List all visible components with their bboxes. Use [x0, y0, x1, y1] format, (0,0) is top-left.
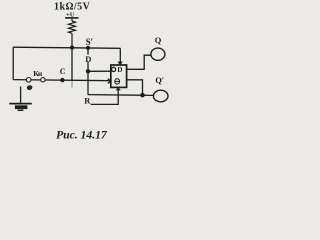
- svg-text:Q: Q: [155, 35, 162, 45]
- svg-text:C: C: [60, 67, 66, 76]
- pin bubble D input: [112, 67, 116, 71]
- switch contact right: [41, 78, 45, 82]
- wire Q' output: [127, 80, 143, 95]
- svg-text:R: R: [84, 96, 91, 106]
- svg-text:Рис. 14.17: Рис. 14.17: [56, 128, 108, 142]
- pin marker bottom triangle: [116, 87, 121, 90]
- node resistor/top rail junction: [70, 46, 74, 50]
- wire faint stub below switch row: [71, 80, 73, 88]
- label output glyph inside box: [115, 79, 120, 84]
- terminal Q' lamp: [153, 90, 168, 102]
- wire clock vertical from resistor node: [71, 48, 73, 80]
- svg-text:Кн: Кн: [33, 69, 43, 78]
- wire top rail: [13, 47, 120, 48]
- flip-flop U1 box: [111, 65, 127, 87]
- node D junction: [86, 69, 90, 73]
- wire Q' rail: [88, 94, 154, 97]
- resistor R1: [69, 19, 76, 48]
- node C junction: [60, 78, 64, 82]
- wire left vertical: [12, 47, 14, 79]
- label D: [84, 55, 92, 62]
- wire D input pin: [88, 70, 111, 72]
- switch contact left: [26, 78, 31, 83]
- wire Q output: [127, 55, 152, 69]
- pin marker top triangle: [118, 62, 123, 66]
- terminal Q lamp: [151, 48, 165, 60]
- pin marker clock chevron: [108, 79, 111, 84]
- node S' junction: [86, 46, 90, 50]
- wire left column S'-D-R: [87, 48, 89, 95]
- node Q' junction: [140, 93, 145, 98]
- wire switch row: [13, 80, 111, 81]
- svg-text:D: D: [85, 54, 91, 64]
- svg-text:Q′: Q′: [155, 75, 164, 85]
- svg-text:D: D: [117, 66, 122, 74]
- ground: [9, 87, 32, 111]
- wire preset top pin: [119, 48, 121, 62]
- svg-text:S′: S′: [86, 37, 94, 47]
- wire clear bottom pin: [117, 90, 119, 104]
- ink blob near ground: [26, 84, 33, 90]
- wire lower R rail: [91, 103, 119, 105]
